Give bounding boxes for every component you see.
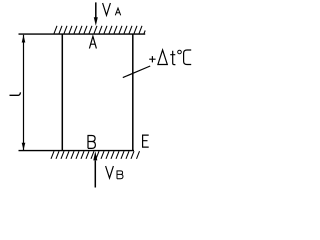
dimension arrowhead top	[22, 35, 26, 43]
label B (point B)	[88, 136, 95, 149]
leader line to heated rod	[123, 66, 150, 78]
label A (point A)	[89, 36, 96, 48]
bottom wall line	[19, 150, 135, 152]
top wall hatching	[54, 26, 145, 34]
force arrow V_A head	[94, 17, 98, 26]
force arrow V_B head	[93, 151, 97, 160]
label V_A	[103, 3, 121, 15]
dimension line l	[23, 35, 25, 151]
left rod	[61, 34, 63, 151]
label E	[143, 135, 149, 147]
label l (rotated ell)	[10, 92, 21, 95]
dimension arrowhead bottom	[22, 143, 26, 151]
bottom wall hatching	[51, 151, 140, 159]
label V_B	[106, 166, 123, 179]
label +Δt°C	[149, 50, 191, 65]
force arrow V_A shaft	[95, 2, 97, 17]
top wall line	[19, 33, 146, 35]
right rod (heated)	[132, 34, 134, 151]
force arrow V_B shaft	[94, 161, 96, 188]
